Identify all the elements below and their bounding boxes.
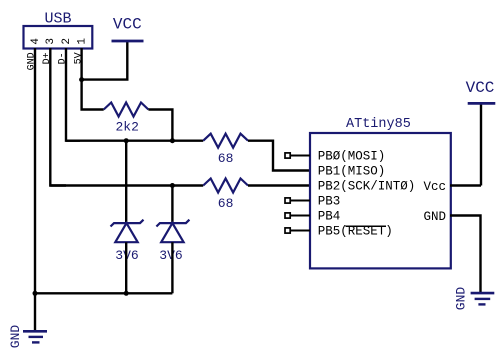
- resistor R2 68 (D- line): zigzag body: [203, 134, 248, 148]
- pin PB3 terminal square: [285, 198, 290, 203]
- wire: R3 to ATtiny85 PB2: [248, 184, 310, 186]
- svg-text:PB2(SCK/INTØ): PB2(SCK/INTØ): [318, 179, 416, 193]
- resistor R1 2k2: zigzag body: [104, 103, 149, 117]
- wire: zener D2 top lead from D+ bus: [171, 186, 173, 224]
- pin name PB5(RESET) with overline: [318, 224, 393, 238]
- junction: ground bus / GND drop: [33, 291, 38, 296]
- wire: USB pin 2 D- down to D- bus: [66, 48, 80, 141]
- junction: D- bus / zener D1 tap: [124, 138, 129, 143]
- zener D1 value label "3V6": [115, 248, 138, 263]
- resistor R3 value label "68": [218, 196, 234, 211]
- VCC supply symbol (top left): label "VCC": [113, 15, 142, 33]
- svg-text:3: 3: [45, 38, 57, 45]
- junction: D- bus / 2k2 tap: [170, 138, 175, 143]
- svg-text:USB: USB: [44, 11, 71, 28]
- wire: USB pin 3 D+ down to D+ bus: [50, 48, 66, 186]
- wire: GND pin stub down to ground symbol (right): [450, 216, 481, 294]
- svg-text:PBØ(MOSI): PBØ(MOSI): [318, 149, 386, 163]
- ATtiny85 IC U1: body: [310, 133, 451, 268]
- wire: D+ bus: [50, 184, 203, 186]
- ground label "GND" (bottom right): [454, 287, 469, 311]
- pin name GND (right): [423, 210, 446, 224]
- svg-text:3V6: 3V6: [159, 248, 182, 263]
- svg-text:Vcc: Vcc: [423, 180, 446, 194]
- ground symbol (bottom right): [471, 293, 495, 304]
- pin number 2: [61, 38, 73, 45]
- svg-text:GND: GND: [423, 210, 446, 224]
- pin PB5 stub: [290, 230, 310, 232]
- wire: 2k2 right lead down to D- bus: [148, 110, 172, 141]
- junction: 5V / VCC tap: [79, 77, 84, 82]
- wire: zener D1 top lead from D- bus: [125, 141, 127, 223]
- svg-text:ATtiny85: ATtiny85: [346, 117, 411, 132]
- pin name PB1(MISO): [318, 164, 386, 178]
- zener diode D1: cathode bar with wings: [111, 220, 144, 243]
- pin label 5V: [73, 52, 84, 64]
- ground label "GND" (bottom left): [8, 325, 23, 349]
- junction: D+ bus / zener D2 tap: [170, 183, 175, 188]
- svg-text:1: 1: [76, 38, 88, 45]
- pin PB0 terminal square: [285, 153, 290, 158]
- pin PB4 terminal square: [285, 213, 290, 218]
- svg-text:2: 2: [61, 38, 73, 45]
- zener diode D2: cathode bar with wings: [156, 220, 189, 243]
- USB connector J1: [24, 26, 93, 49]
- wire: Vcc pin stub to VCC rail: [450, 184, 481, 186]
- svg-text:2k2: 2k2: [115, 120, 138, 135]
- pin number 3: [45, 38, 57, 45]
- pin name PB2(SCK/INT0): [318, 179, 416, 193]
- pin number 4: [30, 38, 42, 45]
- pin PB5 terminal square: [285, 228, 290, 233]
- pin name PB0(MOSI): [318, 149, 386, 163]
- wire: ground bus: [35, 292, 172, 294]
- svg-text:4: 4: [30, 38, 42, 45]
- VCC supply symbol (top right): bar: [468, 102, 496, 105]
- resistor R2 value label "68": [218, 151, 234, 166]
- pin PB0 stub: [290, 155, 310, 157]
- svg-text:VCC: VCC: [113, 15, 142, 33]
- pin name Vcc (right): [423, 180, 446, 194]
- pin label D+: [42, 52, 53, 64]
- pin label D-: [58, 52, 69, 64]
- wire: R2 to ATtiny85 PB1: [248, 141, 310, 171]
- svg-text:68: 68: [218, 196, 234, 211]
- resistor R1 value label "2k2": [115, 120, 138, 135]
- svg-text:VCC: VCC: [466, 79, 495, 97]
- svg-text:PB1(MISO): PB1(MISO): [318, 164, 386, 178]
- pin name PB3: [318, 194, 341, 208]
- pin PB4 stub: [290, 215, 310, 217]
- wire: 5V junction to VCC symbol: [82, 41, 128, 80]
- junction: ground bus / zener D1: [124, 291, 129, 296]
- ATtiny85 IC U1: name label: [346, 117, 411, 132]
- pin number 1: [76, 38, 88, 45]
- wire: D- bus: [66, 139, 203, 141]
- pin name PB4: [318, 209, 341, 223]
- zener D2 value label "3V6": [159, 248, 182, 263]
- wire: zener D1 anode to ground bus: [125, 242, 127, 293]
- resistor R3 68 (D+ line): zigzag body: [203, 179, 248, 193]
- wire: VCC rail vertical (right): [480, 103, 482, 185]
- ground symbol (bottom left): [23, 331, 47, 342]
- svg-text:GND: GND: [8, 325, 23, 349]
- USB connector name label "USB": [44, 11, 71, 28]
- VCC supply symbol (top left): bar: [112, 40, 144, 43]
- svg-text:PB4: PB4: [318, 209, 341, 223]
- svg-text:PB3: PB3: [318, 194, 341, 208]
- svg-text:68: 68: [218, 151, 234, 166]
- pin label GND: [27, 52, 38, 70]
- pin PB3 stub: [290, 200, 310, 202]
- wire: zener D2 anode to ground bus: [171, 242, 173, 293]
- wire: USB pin 1 5V down to 2k2 resistor: [82, 48, 104, 110]
- svg-text:GND: GND: [454, 287, 469, 311]
- wire: ground bus down to ground symbol (left): [34, 293, 36, 331]
- VCC supply symbol (top right): label "VCC": [466, 79, 495, 97]
- wire: USB pin 4 GND down to ground bus: [34, 48, 36, 293]
